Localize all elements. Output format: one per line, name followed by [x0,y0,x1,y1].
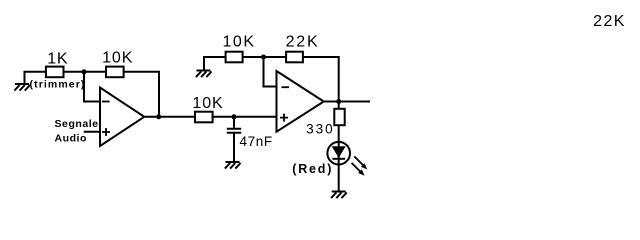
wire U2 output stub [324,101,370,103]
svg-text:22K: 22K [286,34,320,51]
U2 minus sign [282,86,290,88]
wire ground to R1 [24,71,48,73]
resistor R6 330 (vertical) [334,109,344,125]
node E junction dot (U2 output) [336,99,341,104]
LED D1 [327,142,350,165]
wire R4 to R5 through node D [243,56,287,58]
LED emission arrow 2 [352,163,365,176]
ground G4 (capacitor) [225,162,241,169]
ground G2 (U2 inverting network) [196,57,212,77]
svg-text:22K: 22K [593,13,626,30]
svg-text:(trimmer): (trimmer) [30,79,86,91]
svg-text:10K: 10K [192,95,223,112]
wire node A down to U1 inverting input [84,72,100,102]
node B junction dot (U1 output / feedback) [156,114,161,119]
resistor R5 22K (feedback op-amp U2) [286,52,303,63]
resistor R3 10K (series) [195,112,213,123]
ground G1 (trimmer lower leg) [14,72,30,91]
op-amp U1 [100,88,144,147]
svg-text:Audio: Audio [55,133,88,145]
svg-text:(Red): (Red) [292,162,333,176]
U1 minus sign [102,101,110,103]
svg-text:1K: 1K [47,51,68,68]
resistor R2 10K (feedback op-amp U1) [106,67,124,78]
node A junction dot [82,69,87,74]
wire R3 to U2 non-inverting input [212,116,278,118]
svg-text:Segnale: Segnale [55,118,99,130]
svg-text:47nF: 47nF [240,134,273,149]
resistor R4 10K [226,52,243,63]
node C junction dot (filter node) [232,114,237,119]
wire input stub to U1 non-inverting input [84,131,100,133]
wire U1 output to R3 [144,116,196,118]
capacitor C1 47nF [227,118,241,162]
LED emission arrow 1 [354,156,367,169]
wire U2 output down through R6 and D1 to ground [338,102,340,192]
resistor R1 1K (trimmer) [46,67,64,78]
svg-text:10K: 10K [102,50,133,67]
wire node D down to U2 inverting input [264,57,278,87]
U1 plus sign [102,128,110,136]
U2 plus sign [280,114,288,122]
wire R1 to R2 through node A [64,71,108,73]
node D junction dot [261,55,266,60]
svg-text:10K: 10K [223,34,256,51]
wire R2 to feedback drop [123,72,159,117]
op-amp U2 [277,71,324,132]
wire ground to R4 [203,56,227,58]
wire R5 to U2 output drop [303,57,339,102]
svg-text:330: 330 [306,122,335,137]
ground G3 (LED cathode) [331,192,347,199]
